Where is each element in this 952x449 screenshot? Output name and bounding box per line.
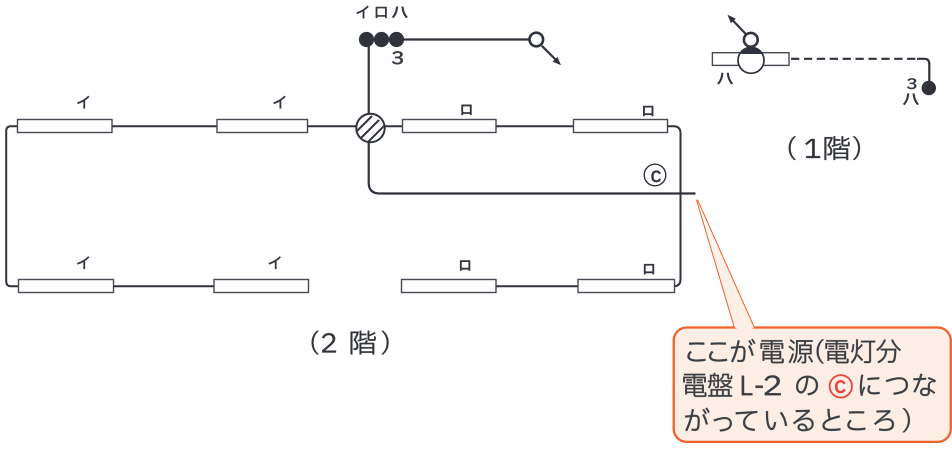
fluorescent lamp FL7 ロ (2F bottom) xyxy=(402,280,497,293)
wire junction box to FL3 xyxy=(383,125,403,127)
wire FL3 to FL4 xyxy=(496,125,574,127)
callout box xyxy=(674,328,951,442)
label ハ for 1F switch xyxy=(903,94,918,105)
callout text line 3: がっているところ） xyxy=(685,408,709,431)
caption （2 階） xyxy=(312,331,319,355)
switch point イ (black dot) xyxy=(359,32,374,47)
label イ for FL1 xyxy=(78,96,89,108)
wire FL7 to FL8 xyxy=(496,285,578,287)
wire elbow down to 1F switch xyxy=(917,59,929,82)
label イロハ above switch dots xyxy=(357,6,368,18)
label ロ for FL3 xyxy=(462,105,472,115)
erase border under pointer base xyxy=(737,326,753,329)
fluorescent lamp FL1 イ (2F top-left) xyxy=(18,120,113,133)
arrow of fixture pull switch xyxy=(732,19,747,34)
fluorescent lamp FL6 イ (2F bottom) xyxy=(214,280,309,293)
pull switch symbol (circle with arrow) xyxy=(530,33,544,47)
pull switch circle on fixture xyxy=(744,33,758,47)
callout text line 2: 電盤 L-2 のⓒにつな xyxy=(683,374,706,397)
dashed wire 1F fixture to switch xyxy=(791,58,917,60)
switch point ロ (black dot) xyxy=(374,32,389,47)
label ロ for FL8 xyxy=(644,264,654,274)
dark cap segment of fixture xyxy=(740,47,763,54)
label ロ for FL4 xyxy=(643,106,653,116)
caption （1 階） xyxy=(789,136,796,160)
fluorescent lamp FL4 ロ (2F top) xyxy=(574,120,668,133)
fluorescent lamp FL3 ロ (2F top) xyxy=(403,120,497,133)
arrow of pull switch xyxy=(542,46,557,61)
label イ for FL6 xyxy=(269,257,280,269)
wire: 2F left riser loop xyxy=(6,126,18,286)
wire: junction box top riser to switches xyxy=(368,40,370,116)
circled c (red) in callout xyxy=(830,375,852,397)
junction box (hatched circle) xyxy=(355,114,385,144)
label イ for FL2 xyxy=(274,96,285,108)
fluorescent lamp FL2 イ (2F top) xyxy=(217,120,308,133)
wire FL1 to FL2 xyxy=(112,125,217,127)
node c (power source circle) xyxy=(644,164,666,186)
label イ for FL5 xyxy=(78,257,89,269)
label ハ for 1F fixture xyxy=(718,73,733,84)
callout pointer triangle xyxy=(697,200,754,328)
ceiling light fixture with lamp (1F) xyxy=(712,53,789,66)
callout text line 1: ここが電源（電灯分 xyxy=(688,343,706,362)
switch point ハ 3-way (black dot) xyxy=(389,32,404,47)
label 3 for 1F switch xyxy=(907,78,916,89)
switch point ハ 3-way 1F (black dot) xyxy=(922,81,936,95)
wire FL2 to junction box xyxy=(308,125,359,127)
label 3 (3-way) under dots xyxy=(392,51,403,64)
wire: source feed from junction box xyxy=(369,141,696,194)
fluorescent lamp FL5 イ (2F bottom-left) xyxy=(19,280,114,293)
label ロ for FL7 xyxy=(460,261,470,271)
fluorescent lamp FL8 ロ (2F bottom) xyxy=(578,280,675,293)
wire switch dots to 1F pull point xyxy=(397,38,530,40)
wire FL5 to FL6 xyxy=(114,285,215,287)
wire: right riser FL4 down to FL8 xyxy=(668,126,681,286)
